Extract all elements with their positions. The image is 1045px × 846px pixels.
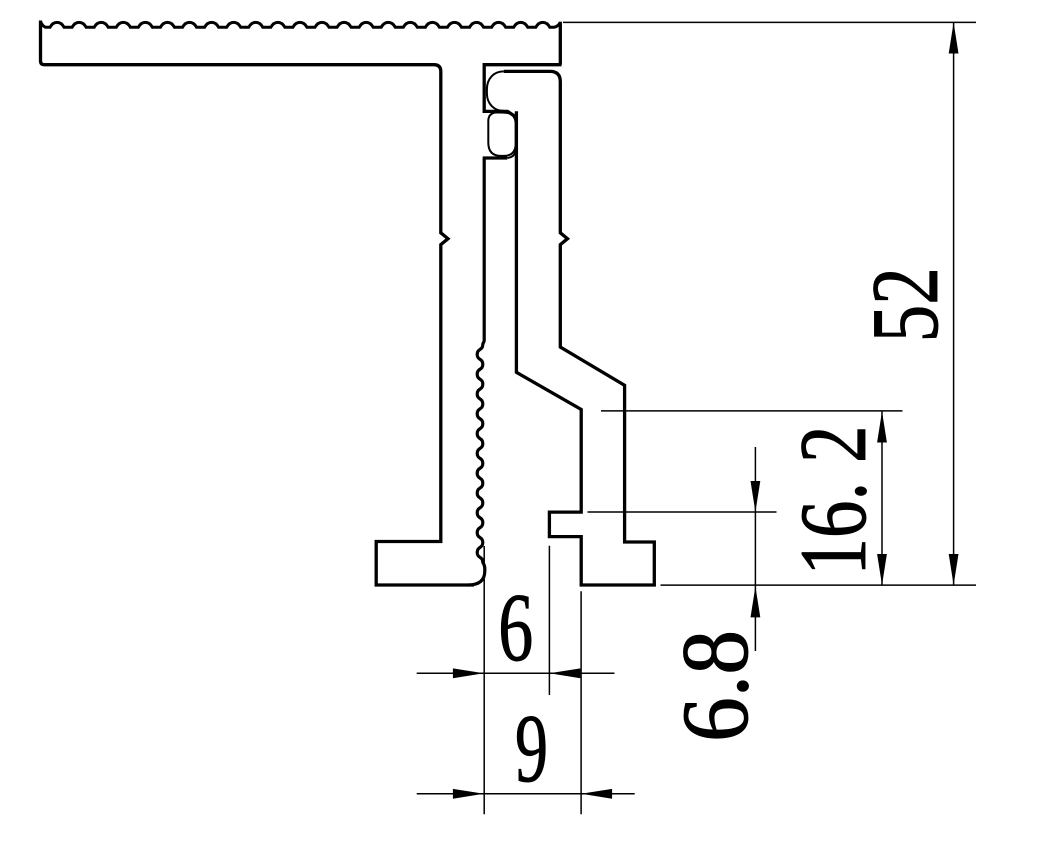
gasket upper lobe left arcs (thin)	[487, 71, 504, 111]
extension line: foot bottom to 52/16.2 dims	[661, 584, 977, 586]
arrowheads 16.2	[877, 411, 887, 442]
right member: inner top wall, right wall with break, diagonal step, right foot, tab	[504, 71, 655, 585]
svg-text:9: 9	[515, 695, 548, 802]
dim line "6"	[417, 672, 615, 674]
bottom extension line 3 (x=581.1)	[580, 591, 582, 814]
arrowheads "9" (outside)	[453, 789, 484, 799]
jaw-to-wall fillet (thin)	[507, 148, 516, 158]
bottom extension line 1 (x=483.9)	[483, 546, 485, 814]
extension line: plate top to 52 dim	[563, 21, 976, 23]
16.2 top extension line	[601, 410, 903, 412]
dim line "9"	[417, 793, 635, 795]
svg-text:16. 2: 16. 2	[780, 426, 886, 576]
arrowheads 52	[949, 22, 959, 53]
lower jaw of screw channel	[483, 156, 508, 159]
arrowheads 6.8 (outside)	[751, 481, 761, 512]
6.8 top extension line (tab top)	[588, 511, 777, 513]
52 dimension line	[953, 22, 955, 585]
plate left end + bottom edge + left wall with break + left foot	[41, 21, 475, 586]
serrated middle wall left edge	[468, 158, 485, 585]
16.2 dimension line	[881, 411, 883, 585]
6.8 dimension line with tails	[754, 447, 756, 651]
svg-text:6.8: 6.8	[662, 630, 768, 742]
bottom extension line 2 (x=549.4)	[548, 546, 550, 695]
arrowheads "6" (outside)	[453, 668, 484, 678]
gasket lower lobe (thin rounded)	[488, 112, 515, 155]
plate bottom right segment + cavity left wall + upper jaw	[484, 65, 561, 118]
svg-text:52: 52	[852, 267, 958, 342]
top knurled edge of mounting plate	[41, 22, 561, 28]
svg-text:6: 6	[498, 574, 533, 681]
plate right edge	[559, 22, 562, 65]
